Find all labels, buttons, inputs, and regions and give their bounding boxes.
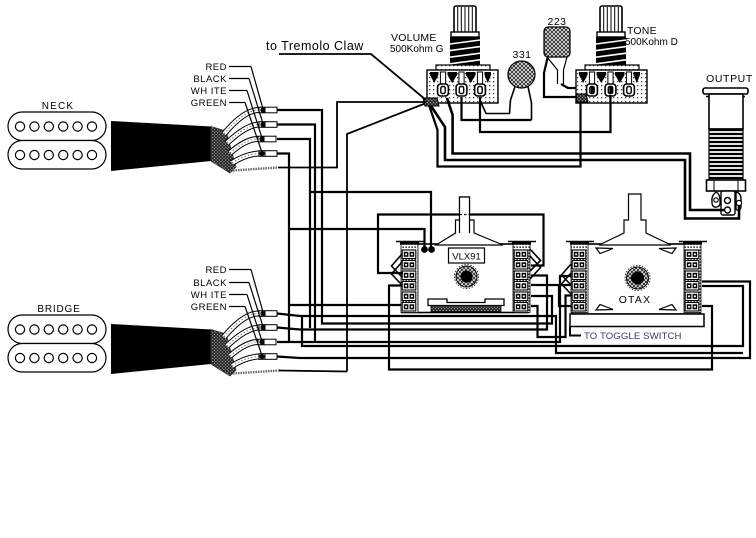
svg-text:BLACK: BLACK (193, 278, 227, 289)
OTAX left terminal strip (566, 241, 594, 313)
bridge wire tube black (227, 328, 259, 347)
bridge ferrule white (258, 339, 276, 345)
bridge ferrule green (259, 354, 277, 360)
volume pot ground blob (423, 98, 439, 106)
neck pickup humbucker (8, 112, 106, 169)
bridge cable shield braid (211, 330, 236, 377)
wire ground blob to jack sleeve (431, 106, 739, 219)
neck wire tube green (232, 154, 259, 164)
wire volume lug1 to jack tip (447, 98, 724, 210)
bridge pickup humbucker (8, 315, 106, 372)
wire bridge-shield riser to ground blob (347, 104, 425, 372)
neck solder dot green (259, 151, 264, 156)
svg-text:GREEN: GREEN (191, 302, 227, 313)
wire ground blob to tone ground blob (429, 102, 581, 167)
VLX91 top post dot B (428, 246, 435, 253)
bridge bare shield wire (233, 371, 279, 374)
switch OTAX body (572, 244, 700, 314)
wire jumper tee to OTAX left cell6 (559, 285, 571, 306)
svg-text:500Kohm G: 500Kohm G (390, 44, 444, 55)
tone pot ground blob (576, 94, 588, 102)
neck wire tube white (230, 139, 258, 153)
svg-text:GREEN: GREEN (191, 98, 227, 109)
neck bare shield wire (233, 168, 278, 171)
neck solder dot red (260, 107, 265, 112)
neck solder dot white (259, 136, 264, 141)
output jack threads (709, 129, 743, 180)
OTAX lever (599, 194, 671, 245)
svg-text:RED: RED (205, 265, 227, 276)
wire neck-black junction bridge-white (277, 125, 315, 343)
svg-text:VOLUME: VOLUME (391, 32, 437, 44)
VLX91 base bracket (428, 299, 504, 306)
bridge wire tube green (232, 357, 259, 367)
output jack nut (707, 180, 746, 191)
bridge solder dot green (259, 354, 264, 359)
capacitor C223 box (544, 27, 570, 57)
svg-text:BRIDGE: BRIDGE (37, 304, 80, 315)
wire neck-shield to volume ground blob (278, 102, 426, 168)
wire bridge-red row and drop at x556 (277, 314, 743, 354)
tone lug2 solder fill (609, 87, 613, 94)
wire volume lug2 to cap331 right leg (462, 97, 532, 120)
wire VLX91 cell3 top jumper (378, 215, 544, 274)
svg-text:VLX91: VLX91 (452, 252, 481, 263)
VLX91 right terminal strip (508, 241, 536, 313)
tone pot U2 (576, 6, 647, 103)
capacitor 331 right leg (528, 87, 532, 121)
neck solder dot black (260, 122, 265, 127)
wire neck-green trunk (277, 154, 289, 343)
wire neck-green branch to VLX91 top post (289, 229, 425, 250)
svg-text:223: 223 (547, 16, 566, 28)
bridge ferrule black (259, 325, 277, 331)
wire VLX91 left cell4 big loop to OTAX right cell6 (389, 286, 712, 370)
VLX91 top post dot A (421, 246, 428, 253)
tremolo claw wire (279, 54, 426, 100)
to toggle switch pointer (570, 327, 581, 336)
svg-text:OUTPUT: OUTPUT (706, 73, 753, 85)
VLX91 rivet (455, 265, 479, 289)
neck wire tube red (224, 110, 259, 134)
wire bridge-red to OTAX right cell4 (302, 286, 743, 346)
bridge pickup cable (111, 324, 211, 374)
svg-text:RED: RED (205, 62, 227, 73)
wire VLX91 right cell4 jumper to OTAX left cell4 (531, 284, 571, 286)
neck ferrule white (258, 136, 276, 142)
wire volume lug3 to tone lug2 (480, 95, 611, 132)
wire bridge-shield run (279, 371, 347, 372)
bridge wire tube red (224, 313, 259, 337)
OTAX left chevrons (562, 264, 572, 285)
capacitor 223 right leg wire to tone lug1 (561, 84, 593, 88)
wire bridge-white to OTAX left cell3 (277, 276, 571, 342)
VLX91 left chevrons (392, 254, 403, 277)
output jack cap (703, 88, 748, 94)
neck wire tube black (227, 125, 259, 144)
svg-text:500Kohm D: 500Kohm D (625, 37, 678, 48)
tone lug1 solder fill (591, 87, 595, 94)
output jack barrel (709, 94, 743, 129)
bridge solder dot black (260, 325, 265, 330)
OTAX corner flag bottom-right (659, 305, 676, 311)
neck pickup cable (111, 121, 211, 171)
VLX91 lever stem redraw over jumper (460, 197, 470, 233)
output jack tip lug (721, 191, 735, 215)
bridge solder dot white (259, 339, 264, 344)
svg-text:BLACK: BLACK (193, 74, 227, 85)
bridge solder dot red (260, 311, 265, 316)
OTAX mounting plate (570, 314, 704, 327)
capacitor C331 disc (508, 61, 535, 88)
switch VLX91 body (402, 244, 528, 313)
svg-text:WH ITE: WH ITE (191, 290, 227, 301)
wire VLX91 right cell6 to OTAX left cell5 (531, 296, 571, 338)
svg-text:NECK: NECK (42, 101, 75, 112)
wire neck-white branch to VLX91 top post (310, 192, 431, 250)
neck ferrule green (259, 151, 277, 157)
wire bridge-black to VLX91 right cell3 (277, 276, 547, 330)
capacitor 223 left leg wire (544, 58, 577, 97)
OTAX right terminal strip (679, 241, 707, 313)
capacitor 223 lead funnel (547, 57, 567, 84)
output jack left lug (712, 192, 720, 207)
neck ferrule black (259, 122, 277, 128)
bridge ferrule red (259, 311, 277, 317)
output jack sleeve lug (736, 192, 741, 210)
VLX91 lever (436, 197, 503, 245)
OTAX corner flag top-right (659, 248, 676, 254)
svg-text:WH ITE: WH ITE (191, 86, 227, 97)
volume pot U1 (427, 6, 498, 103)
wire ground to VLX91 left cell6 (289, 304, 401, 306)
neck cable shield braid (211, 127, 236, 174)
bridge wire tube white (230, 342, 258, 356)
wire neck-red to VLX91 right cell5 (277, 110, 552, 324)
capacitor 331 left leg (481, 87, 515, 114)
svg-text:to Tremolo Claw: to Tremolo Claw (266, 39, 364, 53)
svg-text:TO TOGGLE SWITCH: TO TOGGLE SWITCH (584, 331, 682, 342)
neck ferrule red (259, 107, 277, 113)
VLX91 left terminal strip (396, 241, 424, 313)
VLX91 right chevrons (530, 249, 541, 271)
svg-text:331: 331 (512, 49, 531, 61)
svg-text:TONE: TONE (627, 25, 657, 37)
wire bridge-green to OTAX right cell3 (277, 282, 750, 359)
OTAX corner flag bottom-left (596, 305, 613, 311)
svg-text:OTAX: OTAX (619, 294, 652, 306)
OTAX corner flag top-left (596, 248, 613, 254)
wire neck-white junction bridge-black (277, 139, 310, 328)
OTAX rivet (625, 266, 650, 291)
VLX91 label box (449, 248, 485, 263)
